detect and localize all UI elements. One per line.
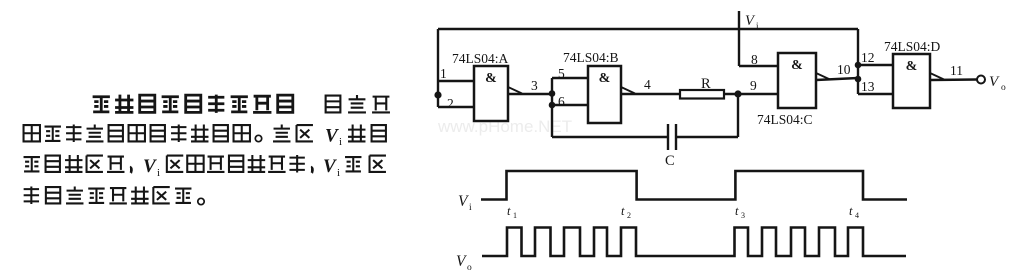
node pin6 junction (549, 102, 556, 109)
svg-text:V: V (143, 156, 157, 177)
svg-text:t: t (621, 204, 625, 218)
wire C output (node 10) (816, 73, 830, 80)
svg-text:V: V (458, 193, 469, 210)
waveform Vo trace (482, 228, 906, 257)
node A-input junction (434, 91, 441, 98)
svg-text:3: 3 (741, 211, 745, 220)
wire B output (to R) (621, 87, 635, 94)
resistor R (680, 90, 724, 99)
svg-text:2: 2 (627, 211, 631, 220)
wire capacitor to B-input bus (552, 136, 668, 138)
wire D output (930, 73, 944, 80)
svg-text:i: i (157, 167, 160, 179)
svg-text:C: C (665, 153, 675, 169)
svg-text:i: i (337, 167, 340, 179)
terminal Vo (977, 76, 985, 84)
svg-text:V: V (456, 253, 467, 270)
svg-text:9: 9 (750, 78, 757, 93)
svg-text:6: 6 (558, 94, 565, 109)
node pin13 junction (855, 76, 862, 83)
svg-text:74LS04:A: 74LS04:A (452, 51, 509, 66)
svg-text:V: V (323, 156, 337, 177)
svg-text:1: 1 (440, 66, 447, 81)
description text (Chinese paragraph, stylized) (24, 95, 390, 205)
svg-text:1: 1 (513, 211, 517, 220)
op-amp U4 74LS04:D (893, 54, 930, 108)
svg-text:V: V (745, 13, 756, 29)
op-amp U1 74LS04:A (474, 66, 508, 121)
svg-text:10: 10 (837, 62, 851, 77)
svg-text:&: & (906, 59, 918, 74)
svg-text:t: t (735, 204, 739, 218)
wire feedback node10 to A inputs (top) (438, 28, 858, 30)
wire R to node 9 (724, 93, 778, 95)
node 9 junction (734, 90, 741, 97)
node pin12 junction (855, 62, 862, 69)
input Vi vertical wire (738, 11, 740, 66)
svg-text:74LS04:C: 74LS04:C (757, 112, 813, 127)
node 3 junction (549, 90, 556, 97)
svg-text:t: t (849, 204, 853, 218)
svg-text:i: i (469, 203, 472, 213)
svg-text:&: & (599, 71, 611, 86)
svg-text:4: 4 (644, 77, 651, 92)
svg-text:o: o (467, 263, 472, 273)
wire A-input bus (left vertical) (437, 29, 439, 107)
svg-text:t: t (507, 204, 511, 218)
wire D-input bus (857, 29, 859, 94)
svg-text:R: R (701, 76, 711, 92)
wire A output (node 3) (508, 87, 522, 94)
svg-text:&: & (791, 58, 803, 73)
wire node9 down to capacitor (737, 94, 739, 137)
svg-text:12: 12 (861, 50, 875, 65)
svg-text:3: 3 (531, 78, 538, 93)
svg-text:4: 4 (855, 211, 859, 220)
svg-text:o: o (1001, 83, 1006, 93)
svg-text:V: V (325, 126, 339, 147)
svg-text:8: 8 (751, 52, 758, 67)
svg-text:74LS04:D: 74LS04:D (884, 39, 941, 54)
svg-text:2: 2 (447, 96, 454, 111)
waveform Vi trace (481, 171, 907, 200)
svg-text:i: i (339, 136, 342, 148)
op-amp U3 74LS04:C (778, 53, 816, 108)
svg-text:V: V (989, 74, 1000, 90)
wire B-input bus (551, 78, 553, 137)
svg-text:74LS04:B: 74LS04:B (563, 50, 619, 65)
svg-text:11: 11 (950, 63, 963, 78)
svg-text:&: & (485, 71, 497, 86)
capacitor C (675, 124, 677, 150)
svg-text:13: 13 (861, 79, 875, 94)
svg-text:5: 5 (558, 66, 565, 81)
op-amp U2 74LS04:B (588, 66, 621, 123)
